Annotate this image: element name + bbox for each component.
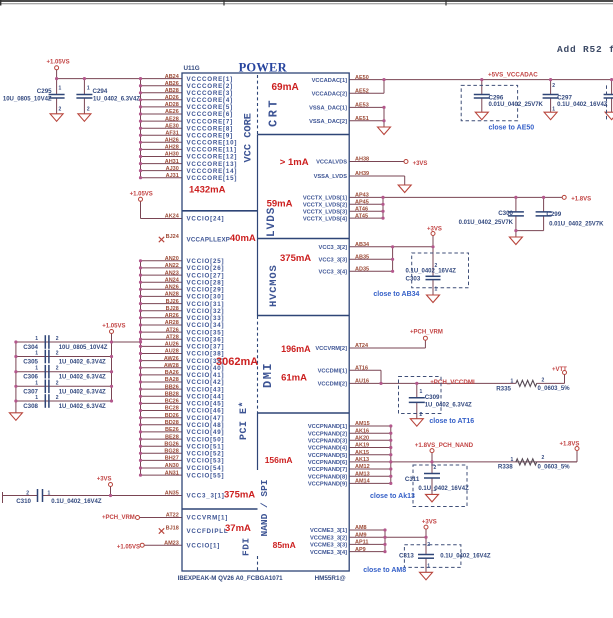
svg-text:AB35: AB35 <box>355 255 369 261</box>
svg-text:AT24: AT24 <box>355 343 369 349</box>
svg-text:0.01U_0402_25V7K: 0.01U_0402_25V7K <box>549 221 604 227</box>
svg-text:AJ31: AJ31 <box>166 173 179 179</box>
svg-text:2: 2 <box>542 378 545 384</box>
svg-text:2: 2 <box>59 107 62 113</box>
svg-text:AK19: AK19 <box>355 443 369 449</box>
svg-text:1: 1 <box>420 389 423 395</box>
svg-text:VCCCORE[1]: VCCCORE[1] <box>187 76 234 83</box>
svg-text:VCCIO[55]: VCCIO[55] <box>187 472 225 479</box>
svg-text:HVCMOS: HVCMOS <box>268 264 280 307</box>
svg-text:AT16: AT16 <box>355 366 368 372</box>
svg-text:VCCDMI[2]: VCCDMI[2] <box>318 382 347 388</box>
svg-text:VCCCORE[10]: VCCCORE[10] <box>187 140 238 147</box>
svg-text:BD28: BD28 <box>165 420 179 426</box>
svg-text:VCCPNAND[5]: VCCPNAND[5] <box>308 453 347 459</box>
svg-text:2: 2 <box>420 412 423 418</box>
svg-text:VCCTX_LVDS[3]: VCCTX_LVDS[3] <box>303 209 347 215</box>
svg-text:AH26: AH26 <box>165 138 179 144</box>
svg-text:AP43: AP43 <box>355 193 369 199</box>
svg-text:10U_0805_10V4Z: 10U_0805_10V4Z <box>3 96 52 102</box>
svg-text:VCC3_3[4]: VCC3_3[4] <box>319 270 348 276</box>
svg-text:PCI E*: PCI E* <box>238 401 250 440</box>
svg-text:2: 2 <box>56 351 59 357</box>
svg-text:VCCME3_3[3]: VCCME3_3[3] <box>310 543 347 549</box>
svg-text:1U_0402_6.3V4Z: 1U_0402_6.3V4Z <box>59 389 106 395</box>
svg-text:VCCIO[24]: VCCIO[24] <box>187 216 225 223</box>
svg-text:VCCCORE[14]: VCCCORE[14] <box>187 168 238 175</box>
svg-text:1: 1 <box>435 287 438 293</box>
svg-text:BJ26: BJ26 <box>166 299 179 305</box>
svg-text:C310: C310 <box>16 498 31 505</box>
svg-text:+1.05VS: +1.05VS <box>102 324 125 330</box>
svg-text:AK15: AK15 <box>355 450 369 456</box>
svg-text:1: 1 <box>511 457 514 463</box>
svg-text:VCCPNAND[2]: VCCPNAND[2] <box>308 431 347 437</box>
svg-text:BJ18: BJ18 <box>166 526 179 532</box>
svg-text:CRT: CRT <box>266 98 280 127</box>
svg-text:+1.05VS: +1.05VS <box>130 191 153 197</box>
svg-text:0_0603_5%: 0_0603_5% <box>538 386 571 392</box>
svg-text:AU28: AU28 <box>165 349 179 355</box>
svg-text:AT45: AT45 <box>355 213 368 219</box>
svg-text:AM23: AM23 <box>164 540 179 546</box>
svg-text:VCCPNAND[9]: VCCPNAND[9] <box>308 482 347 488</box>
svg-text:VCCME3_3[2]: VCCME3_3[2] <box>310 535 347 541</box>
svg-text:C296: C296 <box>489 94 504 101</box>
svg-text:C297: C297 <box>557 94 572 101</box>
svg-text:VCCCORE[3]: VCCCORE[3] <box>187 90 234 97</box>
svg-text:1: 1 <box>35 336 38 342</box>
svg-text:BB26: BB26 <box>165 384 179 390</box>
svg-text:BE28: BE28 <box>165 434 179 440</box>
svg-text:HM55R1@: HM55R1@ <box>315 575 346 582</box>
svg-text:VCCADAC[2]: VCCADAC[2] <box>312 92 347 98</box>
svg-text:0.1U_0402_16V4Z: 0.1U_0402_16V4Z <box>557 102 608 108</box>
svg-text:1: 1 <box>427 564 430 570</box>
svg-text:VCCADAC[1]: VCCADAC[1] <box>312 78 347 84</box>
svg-text:AK24: AK24 <box>165 214 180 220</box>
svg-text:AN20: AN20 <box>165 256 179 262</box>
svg-text:VCCPNAND[1]: VCCPNAND[1] <box>308 424 347 430</box>
svg-text:VCCIO[50]: VCCIO[50] <box>187 436 225 443</box>
svg-text:AJ30: AJ30 <box>166 166 179 172</box>
svg-text:AP9: AP9 <box>355 547 366 553</box>
svg-text:+PCH_VCCDMI: +PCH_VCCDMI <box>430 379 475 386</box>
svg-text:VCCIO[47]: VCCIO[47] <box>187 415 225 422</box>
svg-text:AH28: AH28 <box>165 145 179 151</box>
svg-text:VCCIO[27]: VCCIO[27] <box>187 272 225 279</box>
svg-text:AB28: AB28 <box>165 88 179 94</box>
svg-text:VCCCORE[4]: VCCCORE[4] <box>187 97 234 104</box>
svg-text:VCCIO[35]: VCCIO[35] <box>187 329 225 336</box>
svg-text:BB28: BB28 <box>165 392 179 398</box>
svg-text:IBEXPEAK-M QV26 A0_FCBGA1071: IBEXPEAK-M QV26 A0_FCBGA1071 <box>178 575 284 582</box>
svg-text:BH27: BH27 <box>165 456 179 462</box>
svg-text:69mA: 69mA <box>272 82 299 93</box>
svg-text:VCCME3_3[1]: VCCME3_3[1] <box>310 528 347 534</box>
svg-text:AB34: AB34 <box>355 242 370 248</box>
svg-text:VCCCORE[15]: VCCCORE[15] <box>187 175 238 182</box>
svg-text:U11G: U11G <box>184 65 200 72</box>
svg-text:1: 1 <box>35 395 38 401</box>
svg-text:VCCTX_LVDS[4]: VCCTX_LVDS[4] <box>303 216 347 222</box>
svg-text:VCCCORE[13]: VCCCORE[13] <box>187 161 238 168</box>
svg-text:AK20: AK20 <box>355 436 369 442</box>
svg-text:VCCVRM[1]: VCCVRM[1] <box>187 515 229 522</box>
svg-text:375mA: 375mA <box>224 489 255 500</box>
svg-text:C308: C308 <box>23 403 38 410</box>
svg-text:VCCIO[54]: VCCIO[54] <box>187 465 225 472</box>
svg-text:85mA: 85mA <box>273 540 296 550</box>
svg-text:1: 1 <box>87 86 90 92</box>
svg-text:AE52: AE52 <box>355 89 369 95</box>
svg-text:1: 1 <box>552 107 555 113</box>
svg-text:1: 1 <box>35 351 38 357</box>
svg-text:LVDS: LVDS <box>266 207 278 237</box>
svg-text:C311: C311 <box>405 476 420 483</box>
svg-text:1U_0402_6.3V4Z: 1U_0402_6.3V4Z <box>59 360 106 366</box>
svg-text:2: 2 <box>552 83 555 89</box>
svg-text:VCC3_3[1]: VCC3_3[1] <box>187 493 225 500</box>
svg-text:1U_0402_6.3V4Z: 1U_0402_6.3V4Z <box>93 96 140 102</box>
svg-text:AU26: AU26 <box>165 342 179 348</box>
svg-text:close to AM8: close to AM8 <box>363 567 406 574</box>
svg-text:AD35: AD35 <box>355 267 369 273</box>
svg-text:VCC3_3[3]: VCC3_3[3] <box>319 258 348 264</box>
svg-text:+1.05VS: +1.05VS <box>117 544 140 550</box>
svg-text:VCCIO[53]: VCCIO[53] <box>187 458 225 465</box>
svg-text:0.01U_0402_25V7K: 0.01U_0402_25V7K <box>459 220 514 226</box>
svg-text:AE50: AE50 <box>355 75 369 81</box>
svg-text:C299: C299 <box>546 211 561 218</box>
svg-text:VCCCORE[2]: VCCCORE[2] <box>187 83 234 90</box>
svg-text:VCCME3_3[4]: VCCME3_3[4] <box>310 550 347 556</box>
svg-text:AK16: AK16 <box>355 428 369 434</box>
svg-text:AW26: AW26 <box>164 356 179 362</box>
svg-text:AR26: AR26 <box>165 313 179 319</box>
svg-text:VCCCORE[8]: VCCCORE[8] <box>187 125 234 132</box>
svg-text:VCCPNAND[6]: VCCPNAND[6] <box>308 460 347 466</box>
svg-text:VCCPNAND[7]: VCCPNAND[7] <box>308 467 347 473</box>
svg-text:C295: C295 <box>37 88 52 95</box>
svg-text:Add R52 fo: Add R52 fo <box>557 44 613 55</box>
svg-text:C294: C294 <box>93 88 108 95</box>
svg-text:VCCIO[46]: VCCIO[46] <box>187 408 225 415</box>
svg-text:AN28: AN28 <box>165 292 179 298</box>
svg-text:VCCTX_LVDS[2]: VCCTX_LVDS[2] <box>303 203 347 209</box>
svg-text:2: 2 <box>434 465 437 471</box>
svg-text:2: 2 <box>56 366 59 372</box>
svg-text:C313: C313 <box>399 553 414 560</box>
svg-text:VCCPNAND[3]: VCCPNAND[3] <box>308 439 347 445</box>
svg-text:VCCIO[26]: VCCIO[26] <box>187 265 225 272</box>
svg-text:AR28: AR28 <box>165 320 179 326</box>
svg-text:AN35: AN35 <box>165 491 179 497</box>
svg-text:VCCIO[1]: VCCIO[1] <box>187 542 221 549</box>
svg-text:BG26: BG26 <box>164 441 178 447</box>
svg-text:156mA: 156mA <box>265 455 293 465</box>
svg-text:+VTT: +VTT <box>552 367 567 373</box>
svg-text:1: 1 <box>511 379 514 385</box>
svg-text:VCCIO[28]: VCCIO[28] <box>187 279 225 286</box>
svg-text:> 1mA: > 1mA <box>280 157 309 168</box>
svg-text:AD28: AD28 <box>165 102 179 108</box>
svg-text:1: 1 <box>35 366 38 372</box>
svg-text:2: 2 <box>56 395 59 401</box>
svg-text:+3VS: +3VS <box>97 476 112 482</box>
svg-text:AM9: AM9 <box>355 532 367 538</box>
svg-text:2: 2 <box>56 336 59 342</box>
svg-text:+1.05VS: +1.05VS <box>47 60 70 66</box>
svg-text:VCCVRM[2]: VCCVRM[2] <box>315 346 347 352</box>
svg-text:R338: R338 <box>498 463 513 470</box>
svg-text:AT46: AT46 <box>355 206 368 212</box>
svg-text:VCCIO[51]: VCCIO[51] <box>187 443 225 450</box>
svg-text:VCCIO[49]: VCCIO[49] <box>187 429 225 436</box>
svg-text:3062mA: 3062mA <box>216 356 258 368</box>
svg-text:VCCIO[52]: VCCIO[52] <box>187 451 225 458</box>
svg-text:1432mA: 1432mA <box>189 185 226 196</box>
svg-text:+1.8VS: +1.8VS <box>571 196 591 202</box>
svg-text:2: 2 <box>56 380 59 386</box>
svg-text:C303: C303 <box>406 275 421 282</box>
svg-text:AB26: AB26 <box>165 81 179 87</box>
svg-text:1U_0402_6.3V4Z: 1U_0402_6.3V4Z <box>59 404 106 410</box>
svg-text:BC26: BC26 <box>165 399 179 405</box>
svg-text:VCCPNAND[8]: VCCPNAND[8] <box>308 474 347 480</box>
svg-text:VCCFDIPLL: VCCFDIPLL <box>187 528 229 535</box>
svg-text:VCCIO[41]: VCCIO[41] <box>187 372 225 379</box>
svg-text:0.1U_0402_16V4Z: 0.1U_0402_16V4Z <box>440 554 491 560</box>
svg-text:AH30: AH30 <box>165 152 179 158</box>
svg-text:AM13: AM13 <box>355 471 370 477</box>
svg-text:VCCCORE[11]: VCCCORE[11] <box>187 147 237 154</box>
svg-text:VCCIO[31]: VCCIO[31] <box>187 301 225 308</box>
svg-text:375mA: 375mA <box>280 253 311 264</box>
svg-text:VCCPNAND[4]: VCCPNAND[4] <box>308 446 347 452</box>
svg-text:AT28: AT28 <box>166 334 179 340</box>
svg-text:BD26: BD26 <box>165 413 179 419</box>
svg-text:VSSA_DAC[1]: VSSA_DAC[1] <box>309 106 347 112</box>
svg-text:61mA: 61mA <box>281 373 307 384</box>
svg-text:40mA: 40mA <box>230 233 256 244</box>
svg-text:C309: C309 <box>425 394 440 401</box>
svg-text:VCCIO[32]: VCCIO[32] <box>187 308 225 315</box>
svg-text:VCCAPLLEXP: VCCAPLLEXP <box>187 237 231 244</box>
svg-text:AN26: AN26 <box>165 285 179 291</box>
svg-text:AN30: AN30 <box>165 463 179 469</box>
svg-text:0.1U_0402_16V4Z: 0.1U_0402_16V4Z <box>51 499 102 505</box>
svg-text:2: 2 <box>87 107 90 113</box>
svg-text:1U_0402_6.3V4Z: 1U_0402_6.3V4Z <box>59 375 106 381</box>
svg-text:VCCTX_LVDS[1]: VCCTX_LVDS[1] <box>303 196 347 202</box>
svg-text:AP45: AP45 <box>355 200 369 206</box>
svg-text:0_0603_5%: 0_0603_5% <box>538 464 571 470</box>
svg-text:196mA: 196mA <box>281 344 311 354</box>
svg-text:2: 2 <box>427 542 430 548</box>
svg-text:AH39: AH39 <box>355 171 369 177</box>
svg-text:VCCCORE[7]: VCCCORE[7] <box>187 118 234 125</box>
svg-text:AB24: AB24 <box>165 74 180 80</box>
svg-text:VCCIO[48]: VCCIO[48] <box>187 422 225 429</box>
svg-text:VCCIO[34]: VCCIO[34] <box>187 322 225 329</box>
svg-text:VCCCORE[6]: VCCCORE[6] <box>187 111 234 118</box>
svg-text:+5VS_VCCADAC: +5VS_VCCADAC <box>488 71 538 78</box>
svg-text:BG28: BG28 <box>164 449 178 455</box>
svg-text:AN24: AN24 <box>165 277 180 283</box>
svg-text:1: 1 <box>48 491 51 497</box>
svg-text:1U_0402_6.3V4Z: 1U_0402_6.3V4Z <box>425 403 472 409</box>
svg-text:BA28: BA28 <box>165 377 179 383</box>
svg-text:AN23: AN23 <box>165 270 179 276</box>
svg-text:+3VS: +3VS <box>422 519 437 525</box>
svg-text:AT26: AT26 <box>166 327 179 333</box>
svg-text:close to Ak13: close to Ak13 <box>370 493 415 500</box>
svg-text:close to AT16: close to AT16 <box>429 418 474 425</box>
svg-text:1: 1 <box>59 86 62 92</box>
svg-text:AF31: AF31 <box>165 130 178 136</box>
svg-text:BC28: BC28 <box>165 406 179 412</box>
svg-text:VCCIO[43]: VCCIO[43] <box>187 386 225 393</box>
svg-text:AM14: AM14 <box>355 479 371 485</box>
svg-text:AH38: AH38 <box>355 157 369 163</box>
svg-text:+PCH_VRM: +PCH_VRM <box>410 330 443 336</box>
svg-text:AK13: AK13 <box>355 457 369 463</box>
svg-text:VCCALVDS: VCCALVDS <box>316 160 347 166</box>
svg-text:AE51: AE51 <box>355 116 369 122</box>
svg-text:VSSA_LVDS: VSSA_LVDS <box>314 174 348 180</box>
svg-text:AM8: AM8 <box>355 525 367 531</box>
svg-text:AN22: AN22 <box>165 263 179 269</box>
svg-text:+PCH_VRM: +PCH_VRM <box>102 515 135 521</box>
svg-text:close to AB34: close to AB34 <box>373 291 419 298</box>
svg-text:AM15: AM15 <box>355 421 370 427</box>
svg-text:2: 2 <box>542 455 545 461</box>
svg-text:BA26: BA26 <box>165 370 179 376</box>
svg-text:AU16: AU16 <box>355 379 369 385</box>
svg-text:BJ28: BJ28 <box>166 306 179 312</box>
svg-text:2: 2 <box>26 491 29 497</box>
svg-text:VCCIO[45]: VCCIO[45] <box>187 401 225 408</box>
svg-text:VCCIO[29]: VCCIO[29] <box>187 287 225 294</box>
svg-text:VCCIO[36]: VCCIO[36] <box>187 336 225 343</box>
svg-text:VCCCORE[12]: VCCCORE[12] <box>187 154 238 161</box>
svg-text:DMI: DMI <box>261 362 275 388</box>
svg-text:AT22: AT22 <box>166 513 179 519</box>
svg-text:AE53: AE53 <box>355 103 369 109</box>
svg-text:BJ24: BJ24 <box>166 234 180 240</box>
svg-text:VCCIO[37]: VCCIO[37] <box>187 344 225 351</box>
svg-text:0.1U_0402_16V4Z: 0.1U_0402_16V4Z <box>418 486 469 492</box>
svg-text:VCCCORE[5]: VCCCORE[5] <box>187 104 234 111</box>
svg-text:VSSA_DAC[2]: VSSA_DAC[2] <box>309 119 347 125</box>
svg-text:VCCCORE[9]: VCCCORE[9] <box>187 132 234 139</box>
svg-text:VCC3_3[2]: VCC3_3[2] <box>319 245 348 251</box>
svg-text:AW28: AW28 <box>164 363 179 369</box>
svg-text:0.01U_0402_25V7K: 0.01U_0402_25V7K <box>489 102 544 108</box>
svg-text:0.1U_0402_16V4Z: 0.1U_0402_16V4Z <box>406 268 457 274</box>
svg-text:POWER: POWER <box>239 61 288 75</box>
svg-text:C300: C300 <box>498 210 513 217</box>
svg-text:AD26: AD26 <box>165 95 179 101</box>
svg-text:AP11: AP11 <box>355 540 368 546</box>
svg-text:+3VS: +3VS <box>413 161 428 167</box>
svg-text:AE28: AE28 <box>165 116 179 122</box>
svg-text:VCC CORE: VCC CORE <box>243 113 255 162</box>
svg-text:VCCIO[25]: VCCIO[25] <box>187 258 225 265</box>
svg-text:AM12: AM12 <box>355 464 370 470</box>
svg-text:VCCIO[42]: VCCIO[42] <box>187 379 225 386</box>
svg-text:AH31: AH31 <box>165 159 179 165</box>
svg-text:1: 1 <box>35 380 38 386</box>
svg-text:VCCIO[30]: VCCIO[30] <box>187 294 225 301</box>
svg-text:NAND / SPI: NAND / SPI <box>259 479 270 536</box>
svg-text:BE26: BE26 <box>165 427 179 433</box>
svg-text:VCCIO[33]: VCCIO[33] <box>187 315 225 322</box>
svg-text:AN31: AN31 <box>165 470 179 476</box>
svg-text:R335: R335 <box>496 386 511 393</box>
svg-text:C305: C305 <box>23 359 38 366</box>
svg-text:37mA: 37mA <box>225 523 251 534</box>
svg-text:+1.8VS: +1.8VS <box>560 442 580 448</box>
svg-text:VCCIO[44]: VCCIO[44] <box>187 394 225 401</box>
svg-text:VCCDMI[1]: VCCDMI[1] <box>318 369 347 375</box>
svg-text:FDI: FDI <box>240 537 251 556</box>
svg-text:AE26: AE26 <box>165 109 179 115</box>
svg-text:+1.8VS_PCH_NAND: +1.8VS_PCH_NAND <box>415 442 474 449</box>
svg-text:AE30: AE30 <box>165 123 179 129</box>
svg-text:close to AE50: close to AE50 <box>489 125 535 132</box>
svg-text:10U_0805_10V4Z: 10U_0805_10V4Z <box>59 345 108 351</box>
